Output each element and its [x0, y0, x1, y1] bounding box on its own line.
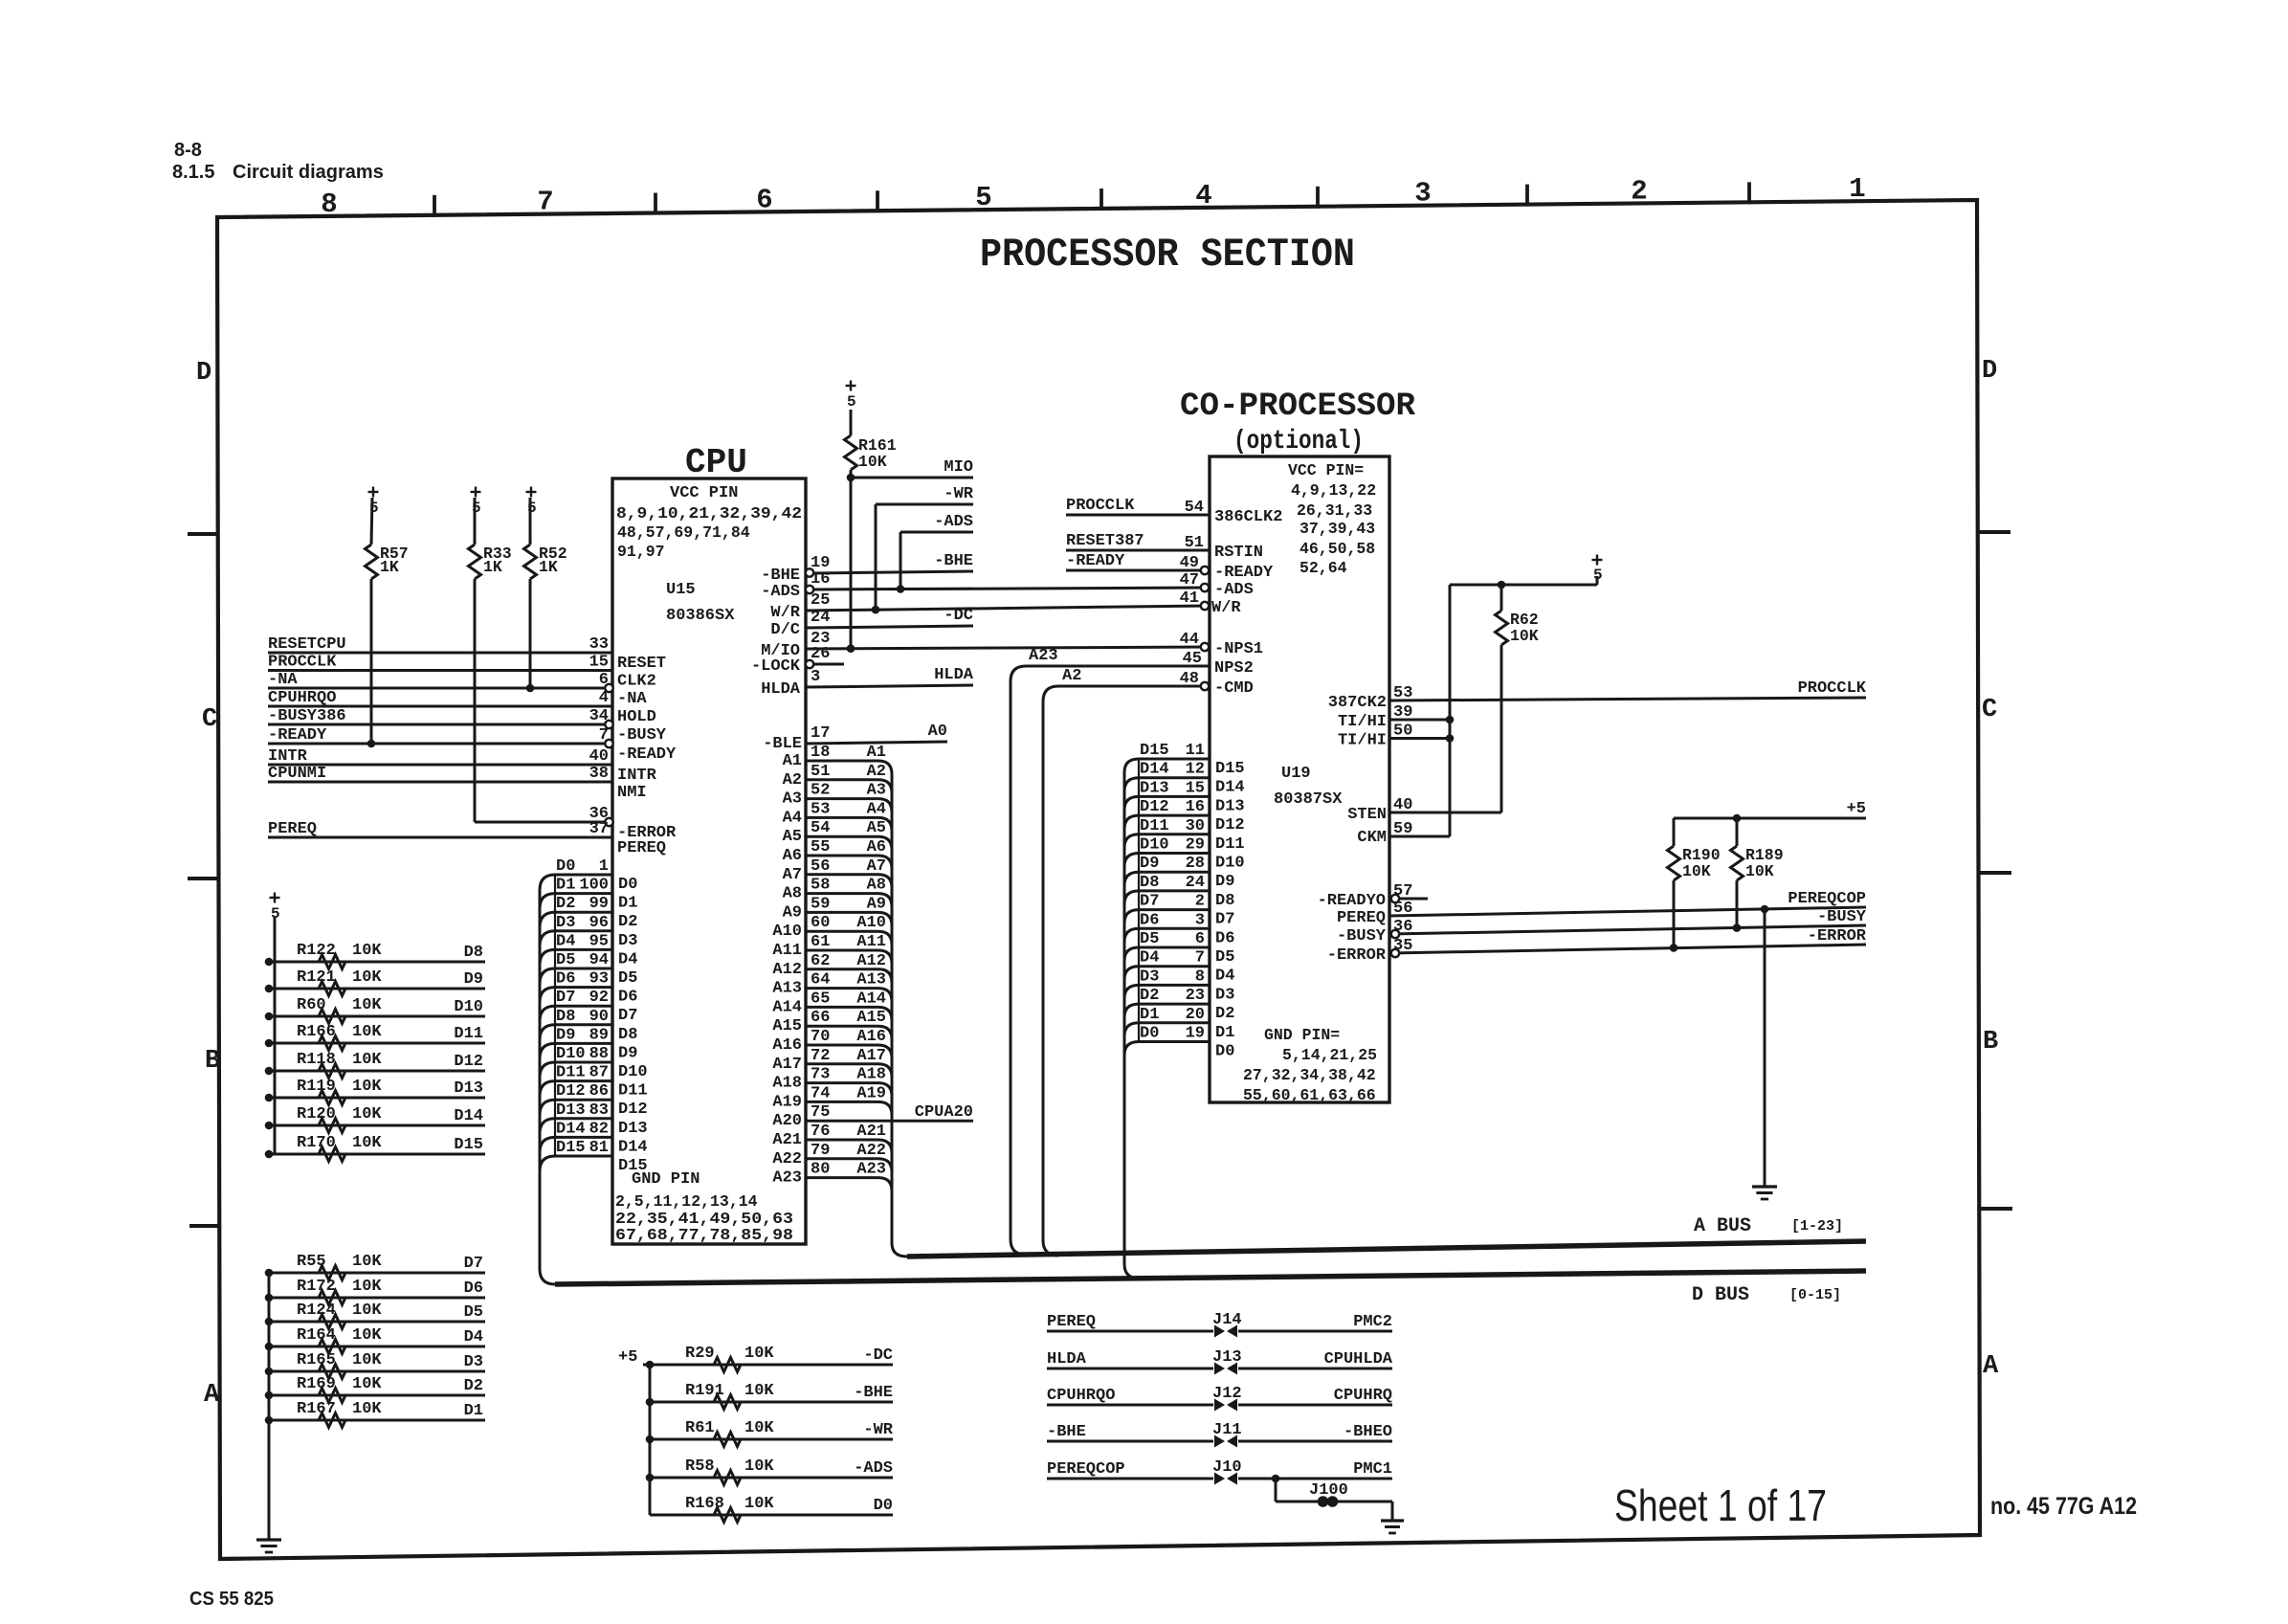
svg-text:R118: R118 [297, 1051, 336, 1069]
svg-text:D3: D3 [1140, 968, 1159, 986]
co-processor pin 20 D1 [1124, 1023, 1210, 1036]
svg-text:A: A [204, 1381, 220, 1410]
CPU pin 76 A21 [806, 1140, 892, 1153]
svg-text:10K: 10K [1682, 862, 1711, 880]
svg-text:89: 89 [589, 1026, 609, 1044]
CPU pin 23 M/IO wire to coprocessor [806, 647, 1210, 649]
svg-text:29: 29 [1186, 836, 1205, 855]
resistor R118 10K net D12 [269, 1070, 485, 1073]
left border row ticks [188, 532, 218, 536]
resistor R124 10K net D5 [269, 1321, 485, 1324]
CPU pin 100 D1 [540, 894, 612, 909]
svg-text:50: 50 [1393, 723, 1412, 741]
svg-text:TI/HI: TI/HI [1338, 713, 1387, 731]
CPU pin 70 A16 [806, 1045, 892, 1058]
svg-text:A15: A15 [772, 1017, 802, 1035]
svg-text:60: 60 [811, 914, 830, 932]
svg-text:D9: D9 [618, 1044, 637, 1062]
svg-text:-BUSY386: -BUSY386 [268, 707, 346, 725]
svg-text:A5: A5 [783, 828, 802, 846]
svg-text:6: 6 [756, 184, 772, 215]
resistor R120 10K net D14 [269, 1124, 485, 1127]
svg-text:10K: 10K [352, 1253, 382, 1271]
svg-text:-ADS: -ADS [934, 513, 973, 531]
net stub RESET387 to coprocessor pin 51 [1066, 549, 1210, 552]
coprocessor pin 57 -READYO stub [1393, 898, 1428, 901]
svg-text:R55: R55 [297, 1253, 326, 1271]
svg-text:100: 100 [579, 877, 609, 895]
co-processor pin 3 D6 [1124, 928, 1210, 942]
pullup resistor R190 10K [1673, 818, 1676, 846]
svg-text:61: 61 [811, 933, 830, 951]
svg-text:24: 24 [811, 609, 830, 627]
svg-text:1: 1 [599, 857, 609, 876]
svg-text:62: 62 [811, 952, 830, 970]
resistor R167 10K net D1 [269, 1419, 485, 1422]
svg-text:A10: A10 [772, 923, 802, 941]
CPU pin 79 A22 [806, 1159, 892, 1172]
co-processor pin 30 D11 [1124, 834, 1210, 848]
svg-text:D11: D11 [618, 1082, 648, 1101]
svg-text:CPUHLDA: CPUHLDA [1324, 1350, 1393, 1368]
svg-text:D10: D10 [556, 1045, 586, 1063]
svg-text:R124: R124 [297, 1301, 336, 1320]
svg-text:96: 96 [589, 914, 609, 932]
svg-text:73: 73 [811, 1066, 830, 1084]
svg-text:A8: A8 [783, 885, 802, 903]
svg-text:CS 55 825: CS 55 825 [189, 1589, 274, 1610]
svg-text:D7: D7 [1140, 893, 1159, 911]
svg-text:10K: 10K [352, 1301, 382, 1320]
svg-text:B: B [1983, 1028, 1998, 1057]
svg-text:C: C [202, 705, 217, 734]
svg-text:D15: D15 [1140, 742, 1169, 760]
svg-text:-ADS: -ADS [1214, 581, 1254, 599]
svg-text:D0: D0 [1215, 1043, 1234, 1061]
svg-text:70: 70 [811, 1028, 830, 1046]
wire -ERROR pin 36 net PEREQ386 [475, 821, 606, 824]
CPU pin 89 D9 [540, 1043, 612, 1058]
svg-text:CO-PROCESSOR: CO-PROCESSOR [1180, 389, 1416, 425]
svg-text:10K: 10K [744, 1495, 774, 1513]
svg-text:D4: D4 [556, 932, 575, 950]
svg-text:56: 56 [1393, 900, 1412, 918]
svg-text:23: 23 [1186, 987, 1205, 1005]
svg-text:D2: D2 [464, 1377, 483, 1395]
svg-text:+5: +5 [618, 1348, 637, 1367]
svg-text:A11: A11 [772, 942, 802, 960]
svg-text:R119: R119 [297, 1078, 336, 1096]
resistor R169 10K net D2 [269, 1394, 485, 1397]
svg-text:A2: A2 [1062, 667, 1081, 685]
svg-text:-READY: -READY [1066, 552, 1125, 570]
svg-text:10K: 10K [1510, 627, 1539, 645]
svg-text:10K: 10K [352, 1351, 382, 1369]
svg-text:A23: A23 [1029, 647, 1058, 665]
svg-text:2: 2 [1195, 893, 1205, 911]
svg-text:A12: A12 [856, 952, 886, 970]
CPU pin 88 D10 [540, 1062, 612, 1078]
CPU pin 82 D14 [540, 1137, 612, 1152]
wire +5 feed and TI/HI tie vertical [1449, 585, 1452, 836]
svg-text:R122: R122 [297, 942, 336, 960]
svg-text:74: 74 [811, 1084, 830, 1102]
wire HOLD pin 4 net CPUHRQO [268, 705, 612, 708]
resistor R61 10K net -WR [650, 1438, 893, 1441]
CPU pin 24 D/C wire to net -DC [806, 626, 973, 628]
power +5 for R62 [1596, 576, 1599, 585]
co-processor D-bus vertical [1124, 772, 1140, 1279]
svg-text:D12: D12 [1140, 798, 1169, 816]
svg-text:44: 44 [1180, 631, 1199, 649]
svg-text:1K: 1K [483, 558, 502, 576]
svg-text:40: 40 [589, 747, 609, 766]
svg-text:36: 36 [1393, 918, 1412, 936]
svg-text:3: 3 [1414, 178, 1431, 210]
svg-text:10K: 10K [352, 1051, 382, 1069]
svg-text:30: 30 [1186, 817, 1205, 835]
svg-text:46,50,58: 46,50,58 [1299, 540, 1375, 558]
wire net A2 from A-bus to coprocessor pin 48 -CMD [1043, 686, 1203, 1256]
svg-text:7: 7 [1195, 949, 1205, 968]
wire PEREQCOP to ground [1761, 905, 1769, 914]
jumper J13 HLDA to CPUHLDA [1047, 1368, 1213, 1370]
svg-text:A1: A1 [867, 744, 886, 762]
svg-text:10K: 10K [858, 453, 887, 471]
co-processor U19 80387SX body [1210, 456, 1389, 1102]
svg-text:10K: 10K [1745, 862, 1774, 880]
bus D BUS [0-15] [555, 1271, 1866, 1284]
coprocessor pin 40 STEN [1389, 812, 1501, 814]
svg-text:35: 35 [1393, 937, 1412, 955]
CPU pin 53 A4 [806, 817, 892, 831]
svg-text:R167: R167 [297, 1400, 336, 1418]
svg-text:17: 17 [811, 724, 830, 743]
svg-text:33: 33 [589, 635, 609, 654]
svg-text:38: 38 [589, 765, 609, 783]
jumper J11 -BHE to -BHEO [1047, 1440, 1213, 1443]
resistor R58 10K net -ADS [650, 1477, 893, 1479]
svg-text:A4: A4 [783, 809, 802, 827]
svg-text:80: 80 [811, 1161, 830, 1179]
svg-text:D14: D14 [1140, 761, 1169, 779]
svg-text:R164: R164 [297, 1326, 336, 1345]
CPU pin 75 A20 [806, 1120, 973, 1123]
coprocessor pin 47 -ADS [1201, 584, 1209, 591]
svg-text:A10: A10 [856, 914, 886, 932]
svg-text:R170: R170 [297, 1134, 336, 1152]
svg-text:3: 3 [811, 668, 820, 686]
svg-text:D3: D3 [556, 914, 575, 932]
svg-text:81: 81 [589, 1139, 609, 1157]
svg-text:D9: D9 [1215, 873, 1234, 891]
svg-text:CPUA20: CPUA20 [915, 1103, 973, 1122]
svg-text:RESET387: RESET387 [1066, 532, 1144, 550]
svg-text:A3: A3 [783, 790, 802, 809]
CPU pin 3 HLDA wire to net HLDA [806, 685, 973, 687]
CPU pin 72 A17 [806, 1064, 892, 1078]
svg-text:86: 86 [589, 1082, 609, 1101]
svg-text:93: 93 [589, 970, 609, 989]
svg-text:11: 11 [1186, 742, 1205, 760]
CPU pin 26 -LOCK stub [811, 663, 844, 666]
resistor R165 10K net D3 [269, 1370, 485, 1373]
svg-text:92: 92 [589, 989, 609, 1007]
svg-text:NMI: NMI [617, 784, 647, 802]
svg-text:R168: R168 [685, 1495, 724, 1513]
coprocessor pin 36 -BUSY wire to net -BUSY [1389, 925, 1866, 934]
CPU pin 1 D0 [540, 875, 612, 890]
svg-text:27,32,34,38,42: 27,32,34,38,42 [1243, 1066, 1376, 1084]
svg-text:CPUNMI: CPUNMI [268, 765, 326, 783]
svg-text:D10: D10 [454, 998, 483, 1016]
svg-text:INTR: INTR [617, 767, 657, 785]
svg-text:10K: 10K [352, 1375, 382, 1393]
svg-text:2: 2 [1631, 175, 1647, 207]
svg-text:D1: D1 [1215, 1024, 1234, 1042]
net stub PROCCLK to coprocessor pin 54 [1066, 514, 1210, 517]
wire -READY pin 7 net -READY [268, 743, 606, 745]
CPU pin 93 D6 [540, 988, 612, 1003]
svg-text:D15: D15 [1215, 760, 1245, 778]
resistor R166 10K net D11 [269, 1042, 485, 1045]
net stub -ADS with drop to -ADS [900, 531, 973, 534]
svg-text:-BHE: -BHE [854, 1384, 893, 1402]
svg-text:39: 39 [1393, 703, 1412, 722]
svg-text:A23: A23 [772, 1169, 802, 1188]
svg-text:R166: R166 [297, 1023, 336, 1041]
svg-text:48: 48 [1180, 670, 1199, 688]
pullup resistor R33 1K [471, 491, 481, 493]
wire net A23 from A-bus to coprocessor pin 45 NPS2 [1011, 666, 1210, 1255]
wire RESET pin 33 net RESETCPU [268, 652, 612, 655]
svg-text:72: 72 [811, 1047, 830, 1065]
svg-text:95: 95 [589, 932, 609, 950]
svg-text:D15: D15 [618, 1157, 648, 1175]
svg-text:-ERROR: -ERROR [1327, 946, 1387, 965]
CPU pin 80 A23 [806, 1178, 892, 1191]
svg-text:CPUHRQ: CPUHRQ [1334, 1387, 1392, 1405]
svg-text:-WR: -WR [863, 1421, 893, 1439]
co-processor pin 15 D13 [1124, 796, 1210, 810]
svg-text:A7: A7 [867, 857, 886, 876]
svg-text:D1: D1 [618, 895, 637, 913]
svg-text:A4: A4 [867, 800, 886, 818]
svg-text:26,31,33: 26,31,33 [1297, 501, 1372, 520]
svg-text:A0: A0 [928, 723, 947, 741]
svg-text:D4: D4 [1215, 968, 1234, 986]
svg-text:NPS2: NPS2 [1214, 659, 1254, 678]
CPU pin 74 A19 [806, 1101, 892, 1115]
svg-text:24: 24 [1186, 874, 1205, 892]
svg-text:A BUS: A BUS [1694, 1215, 1751, 1237]
co-processor pin 11 D15 [1124, 759, 1210, 772]
svg-text:D: D [1982, 357, 1997, 386]
CPU pin 99 D2 [540, 912, 612, 927]
co-processor pin 24 D8 [1124, 891, 1210, 904]
right border row ticks [1977, 530, 2010, 534]
svg-text:A21: A21 [856, 1123, 886, 1141]
svg-text:R60: R60 [297, 996, 326, 1014]
svg-text:8: 8 [1195, 968, 1205, 986]
CPU pin 73 A18 [806, 1083, 892, 1097]
svg-text:-ADS: -ADS [854, 1459, 893, 1478]
svg-text:A12: A12 [772, 961, 802, 979]
svg-text:HLDA: HLDA [934, 666, 974, 684]
coprocessor pin 50 TI/HI [1389, 737, 1450, 740]
svg-text:59: 59 [1393, 820, 1412, 838]
svg-text:D11: D11 [556, 1064, 586, 1082]
svg-text:HOLD: HOLD [617, 708, 656, 726]
CPU pin 90 D8 [540, 1025, 612, 1040]
svg-text:66: 66 [811, 1009, 830, 1027]
svg-text:55,60,61,63,66: 55,60,61,63,66 [1243, 1086, 1376, 1104]
svg-text:10K: 10K [352, 1326, 382, 1345]
resistor R170 10K net D15 [269, 1153, 485, 1156]
svg-text:67,68,77,78,85,98: 67,68,77,78,85,98 [615, 1226, 793, 1244]
svg-text:A15: A15 [856, 1009, 886, 1027]
svg-text:19: 19 [1186, 1025, 1205, 1043]
svg-text:52: 52 [811, 782, 830, 800]
svg-text:D12: D12 [1215, 816, 1245, 834]
top border column ticks [433, 195, 436, 217]
svg-text:D2: D2 [1215, 1005, 1234, 1023]
svg-text:99: 99 [589, 895, 609, 913]
svg-text:D6: D6 [1140, 911, 1159, 929]
wire -BUSY pin 34 net -BUSY386 [268, 723, 606, 726]
svg-text:D9: D9 [556, 1026, 575, 1044]
ground for PEREQCOP pulldown [1752, 1185, 1777, 1188]
svg-text:Sheet 1 of 17: Sheet 1 of 17 [1614, 1480, 1827, 1530]
svg-text:D5: D5 [556, 951, 575, 969]
svg-text:D10: D10 [1215, 855, 1245, 873]
svg-text:10K: 10K [352, 942, 382, 960]
svg-text:PEREQ: PEREQ [268, 820, 317, 838]
svg-text:D3: D3 [618, 932, 637, 950]
svg-text:A19: A19 [856, 1084, 886, 1102]
svg-text:J100: J100 [1309, 1481, 1348, 1500]
svg-text:PMC1: PMC1 [1353, 1460, 1392, 1479]
CPU pin 25 W/R wire to coprocessor [806, 606, 1210, 611]
svg-text:D8: D8 [1215, 892, 1234, 910]
svg-text:54: 54 [811, 819, 830, 837]
svg-text:C: C [1982, 696, 1997, 724]
svg-text:5: 5 [527, 500, 537, 517]
svg-text:INTR: INTR [268, 747, 308, 766]
svg-text:PEREQ: PEREQ [1047, 1313, 1096, 1331]
CPU pin 54 A5 [806, 836, 892, 850]
svg-text:PROCESSOR SECTION: PROCESSOR SECTION [980, 232, 1355, 278]
svg-text:25: 25 [811, 591, 830, 610]
CPU pin 18 A1 [806, 761, 892, 774]
svg-text:40: 40 [1393, 796, 1412, 814]
svg-text:D7: D7 [556, 989, 575, 1007]
svg-text:37: 37 [589, 820, 609, 838]
coprocessor pin 56 PEREQ wire to net PEREQCOP [1389, 907, 1866, 916]
wire -NA pin 6 net -NA [268, 687, 606, 690]
svg-text:A9: A9 [867, 895, 886, 913]
co-processor pin 2 D7 [1124, 910, 1210, 923]
svg-text:A2: A2 [783, 771, 802, 790]
svg-text:A2: A2 [867, 763, 886, 781]
svg-text:[1-23]: [1-23] [1791, 1218, 1843, 1235]
resistor R168 10K net D0 [650, 1514, 893, 1517]
co-processor pin 19 D0 [1124, 1042, 1210, 1056]
svg-text:D9: D9 [1140, 855, 1159, 873]
svg-text:58: 58 [811, 877, 830, 895]
svg-text:D7: D7 [618, 1007, 637, 1025]
svg-text:RESET: RESET [617, 655, 666, 673]
CPU pin 16 -ADS wire to coprocessor [811, 588, 1210, 590]
svg-text:D15: D15 [454, 1136, 483, 1154]
CPU pin 62 A12 [806, 969, 892, 983]
svg-text:no. 45 77G A12: no. 45 77G A12 [1990, 1493, 2137, 1520]
svg-text:-READY: -READY [268, 726, 327, 745]
svg-text:D8: D8 [464, 944, 483, 962]
svg-text:CPUHRQO: CPUHRQO [1047, 1387, 1115, 1405]
svg-text:D14: D14 [618, 1138, 648, 1156]
svg-text:D7: D7 [464, 1255, 483, 1273]
svg-text:41: 41 [1180, 590, 1199, 608]
svg-text:10K: 10K [352, 1078, 382, 1096]
svg-text:26: 26 [811, 645, 830, 663]
svg-text:2,5,11,12,13,14: 2,5,11,12,13,14 [615, 1192, 758, 1211]
svg-text:3: 3 [1195, 911, 1205, 929]
svg-text:387CK2: 387CK2 [1328, 694, 1387, 712]
svg-text:-DC: -DC [944, 607, 973, 625]
svg-text:D11: D11 [1215, 835, 1245, 854]
svg-text:A22: A22 [772, 1150, 802, 1168]
svg-text:R58: R58 [685, 1457, 715, 1476]
svg-text:54: 54 [1185, 499, 1204, 517]
net stub -READY to coprocessor pin 49 [1066, 569, 1203, 572]
svg-text:PEREQCOP: PEREQCOP [1047, 1460, 1125, 1479]
svg-text:W/R: W/R [1211, 599, 1241, 617]
pullup resistor R57 1K [368, 491, 379, 493]
svg-text:GND PIN=: GND PIN= [1264, 1026, 1340, 1044]
ground bus for D1-D7 pulldowns [268, 1273, 271, 1540]
svg-text:53: 53 [811, 800, 830, 818]
svg-text:386CLK2: 386CLK2 [1214, 508, 1282, 526]
svg-text:J14: J14 [1212, 1311, 1242, 1329]
svg-text:D12: D12 [454, 1053, 483, 1071]
wire NMI pin 38 net CPUNMI [268, 781, 612, 784]
svg-text:8-8: 8-8 [174, 140, 202, 161]
svg-text:A6: A6 [783, 847, 802, 865]
svg-text:55: 55 [811, 838, 830, 856]
svg-text:D BUS: D BUS [1692, 1284, 1749, 1306]
jumper J100 to ground [1272, 1475, 1280, 1483]
svg-text:D11: D11 [1140, 817, 1169, 835]
svg-text:-READY: -READY [1214, 564, 1274, 582]
svg-text:6: 6 [1195, 930, 1205, 948]
CPU pin 59 A9 [806, 912, 892, 925]
jumper J12 CPUHRQO to CPUHRQ [1047, 1404, 1213, 1407]
svg-text:A8: A8 [867, 877, 886, 895]
svg-text:D: D [196, 359, 211, 388]
svg-text:94: 94 [589, 951, 609, 969]
svg-text:D0: D0 [1140, 1025, 1159, 1043]
svg-text:-NA: -NA [268, 671, 298, 689]
svg-text:A17: A17 [772, 1056, 802, 1074]
svg-text:-NPS1: -NPS1 [1214, 640, 1263, 658]
svg-text:A13: A13 [856, 971, 886, 990]
svg-text:8,9,10,21,32,39,42: 8,9,10,21,32,39,42 [616, 504, 802, 523]
coprocessor pin 59 CKM [1389, 835, 1450, 838]
net stub MIO [851, 477, 973, 479]
svg-text:76: 76 [811, 1123, 830, 1141]
svg-text:D8: D8 [556, 1008, 575, 1026]
